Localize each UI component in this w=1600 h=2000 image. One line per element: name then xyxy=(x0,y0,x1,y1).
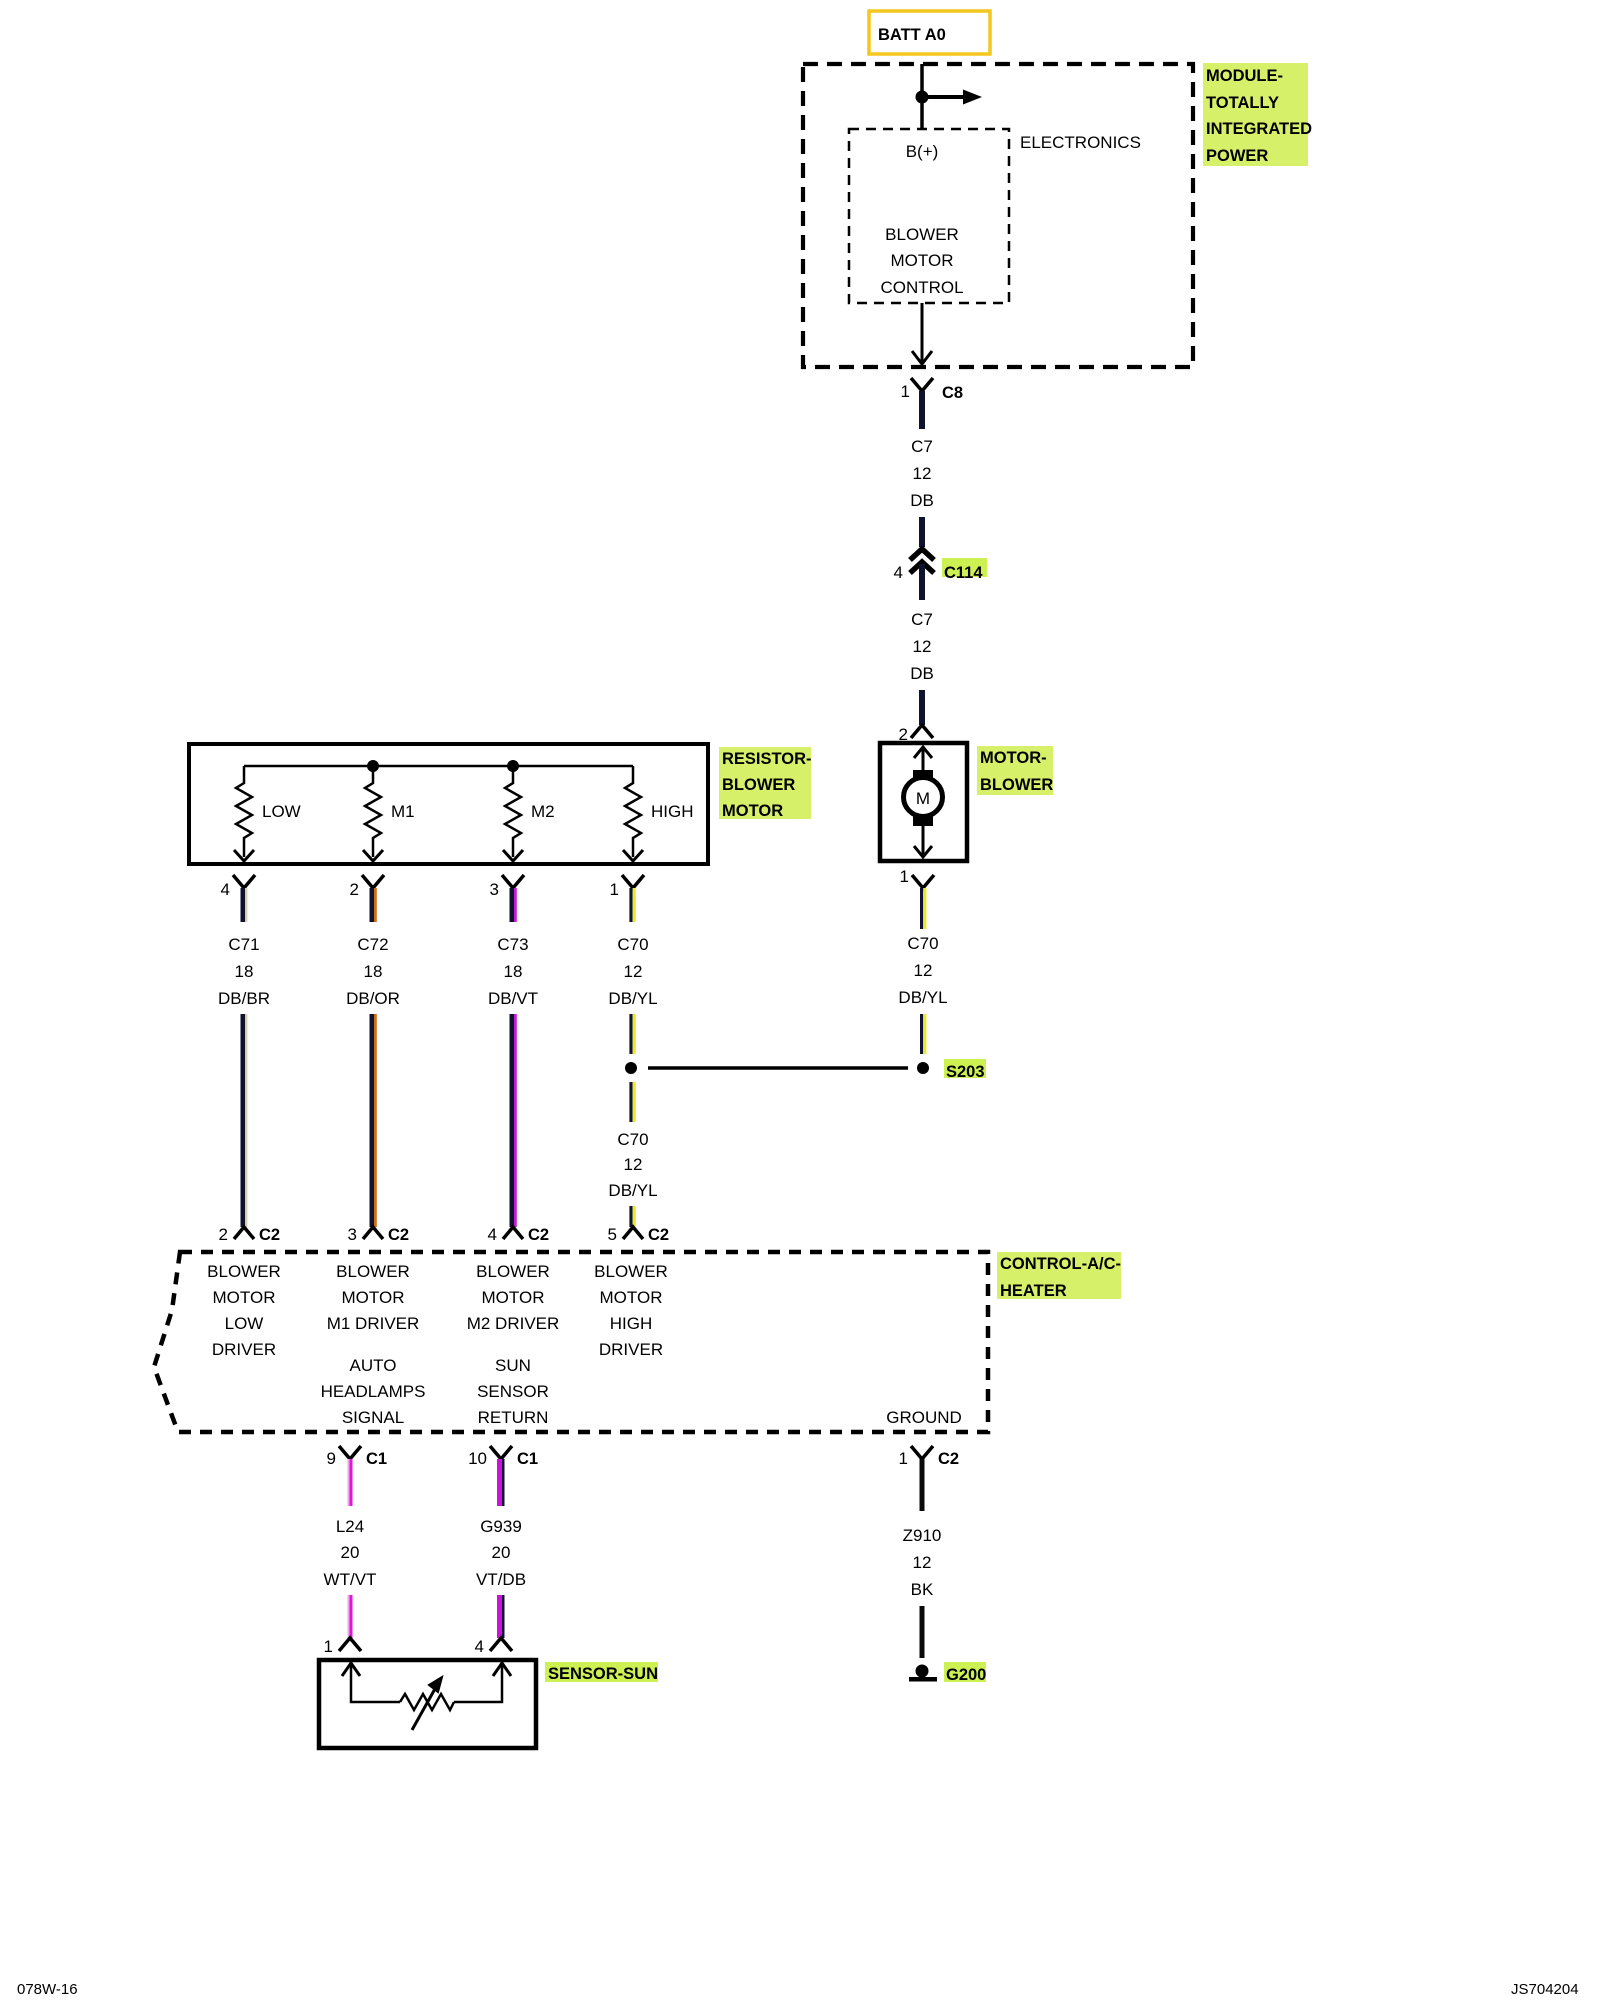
svg-text:C114: C114 xyxy=(944,564,983,582)
wire label C71 18 DB/BR xyxy=(218,935,270,1008)
wire C70 12 DB/YL stub col4 xyxy=(629,888,635,922)
wire L24 20 WT/VT stub xyxy=(348,1459,353,1506)
svg-text:MOTOR: MOTOR xyxy=(213,1288,276,1307)
wire branch arrow to right xyxy=(922,90,982,105)
svg-text:LOW: LOW xyxy=(225,1314,264,1333)
svg-text:LOW: LOW xyxy=(262,802,301,821)
connector pin 9 C1 xyxy=(327,1446,388,1468)
wire label C70 12 DB/YL lower xyxy=(608,1130,657,1200)
wire C72 18 DB/OR stub xyxy=(370,888,377,922)
svg-text:BLOWER: BLOWER xyxy=(722,776,795,794)
svg-text:3: 3 xyxy=(490,880,499,899)
fuse label BATT A0 xyxy=(869,11,990,54)
wire label L24 20 WT/VT xyxy=(324,1517,377,1589)
wire DB/YL motor to S203 xyxy=(920,888,926,929)
wire stub above C114 xyxy=(919,517,925,547)
highlight label S203 xyxy=(944,1059,986,1081)
node junction dot on feed wire xyxy=(916,91,929,104)
svg-text:C1: C1 xyxy=(517,1450,538,1468)
svg-text:HIGH: HIGH xyxy=(610,1314,653,1333)
svg-text:18: 18 xyxy=(235,962,254,981)
pin label BLOWER MOTOR M1 DRIVER xyxy=(327,1262,420,1333)
svg-text:C70: C70 xyxy=(617,1130,648,1149)
svg-text:MOTOR-: MOTOR- xyxy=(980,749,1047,767)
svg-text:M: M xyxy=(916,789,930,808)
motor symbol M with brushes and arrows xyxy=(904,747,943,857)
svg-text:C2: C2 xyxy=(528,1226,549,1244)
connector C8 pin 1 xyxy=(901,378,964,402)
svg-text:BK: BK xyxy=(911,1580,934,1599)
svg-text:1: 1 xyxy=(899,1449,908,1468)
svg-text:WT/VT: WT/VT xyxy=(324,1570,377,1589)
wire L24 lower stub xyxy=(348,1595,353,1638)
svg-text:1: 1 xyxy=(610,880,619,899)
wire col4 stub to C2 xyxy=(629,1206,635,1227)
connector pin 4 sun sensor xyxy=(475,1637,512,1656)
svg-text:12: 12 xyxy=(913,464,932,483)
svg-text:12: 12 xyxy=(624,1155,643,1174)
svg-text:5: 5 xyxy=(608,1225,617,1244)
svg-text:9: 9 xyxy=(327,1449,336,1468)
wire label C7 12 DB xyxy=(910,437,934,510)
svg-text:C1: C1 xyxy=(366,1450,387,1468)
svg-text:CONTROL-A/C-: CONTROL-A/C- xyxy=(1000,1255,1121,1273)
wire label C72 18 DB/OR xyxy=(346,935,400,1008)
wire G939 lower stub xyxy=(497,1595,505,1638)
svg-text:DB/OR: DB/OR xyxy=(346,989,400,1008)
resistor M2 xyxy=(503,766,555,861)
svg-text:Z910: Z910 xyxy=(903,1526,942,1545)
connector pin 1 below motor xyxy=(900,867,934,888)
svg-text:MOTOR: MOTOR xyxy=(722,802,783,820)
wire stub into S203 xyxy=(920,1014,926,1054)
svg-text:AUTO: AUTO xyxy=(350,1356,397,1375)
resistor LOW xyxy=(234,766,301,861)
svg-text:SIGNAL: SIGNAL xyxy=(342,1408,404,1427)
svg-text:S203: S203 xyxy=(946,1063,985,1081)
highlight label G200 xyxy=(944,1662,986,1684)
svg-text:BLOWER: BLOWER xyxy=(207,1262,281,1281)
wire label Z910 12 BK xyxy=(903,1526,942,1599)
node junction col4 splice xyxy=(625,1062,637,1074)
wire Z910 lower stub xyxy=(920,1606,925,1658)
svg-text:JS704204: JS704204 xyxy=(1511,1981,1579,1998)
connector pin 1 below resistor col4 xyxy=(610,875,644,899)
module U1 TIPM outer dashed box xyxy=(803,64,1193,367)
svg-text:MOTOR: MOTOR xyxy=(891,251,954,270)
svg-text:BLOWER: BLOWER xyxy=(980,776,1053,794)
svg-text:4: 4 xyxy=(475,1637,484,1656)
svg-text:18: 18 xyxy=(364,962,383,981)
svg-text:BLOWER: BLOWER xyxy=(476,1262,550,1281)
svg-text:C2: C2 xyxy=(388,1226,409,1244)
connector pin 2 below resistor col2 xyxy=(350,875,384,899)
svg-text:RETURN: RETURN xyxy=(478,1408,549,1427)
label BLOWER MOTOR CONTROL xyxy=(880,225,963,297)
svg-text:BLOWER: BLOWER xyxy=(594,1262,668,1281)
wire label C73 18 DB/VT xyxy=(488,935,538,1008)
pin label BLOWER MOTOR LOW DRIVER xyxy=(207,1262,281,1359)
svg-text:DB: DB xyxy=(910,664,934,683)
connector pin 1 C2 ground xyxy=(899,1446,960,1468)
svg-text:G200: G200 xyxy=(946,1666,986,1684)
svg-text:20: 20 xyxy=(492,1543,511,1562)
svg-text:4: 4 xyxy=(488,1225,497,1244)
svg-text:12: 12 xyxy=(913,637,932,656)
wire label C70 12 DB/YL col4 xyxy=(608,935,657,1008)
svg-text:1: 1 xyxy=(324,1637,333,1656)
motor M1 blower box xyxy=(880,743,967,861)
resistor block box RESISTOR-BLOWER MOTOR xyxy=(189,744,708,864)
svg-text:G939: G939 xyxy=(480,1517,522,1536)
svg-text:C71: C71 xyxy=(228,935,259,954)
wire C71 18 DB/BR stub xyxy=(241,888,248,922)
wire Z910 12 BK stub xyxy=(920,1459,925,1511)
wire col4 below splice xyxy=(629,1082,635,1122)
svg-text:MOTOR: MOTOR xyxy=(482,1288,545,1307)
sub-module dashed box BLOWER MOTOR CONTROL xyxy=(849,129,1009,303)
svg-text:HEATER: HEATER xyxy=(1000,1282,1067,1300)
connector pin 5 C2 col4 xyxy=(608,1225,670,1244)
svg-text:M1: M1 xyxy=(391,802,415,821)
svg-text:4: 4 xyxy=(894,563,903,582)
connector pin 3 C2 col2 xyxy=(348,1225,410,1244)
svg-text:RESISTOR-: RESISTOR- xyxy=(722,750,812,768)
svg-text:10: 10 xyxy=(468,1449,487,1468)
node junction on bus at M1 xyxy=(367,760,379,772)
svg-text:C8: C8 xyxy=(942,384,963,402)
svg-text:DB/YL: DB/YL xyxy=(898,988,947,1007)
wire col4 down to splice xyxy=(629,1014,635,1054)
svg-text:DRIVER: DRIVER xyxy=(599,1340,663,1359)
pin label BLOWER MOTOR HIGH DRIVER xyxy=(594,1262,668,1359)
svg-text:M2 DRIVER: M2 DRIVER xyxy=(467,1314,560,1333)
svg-text:2: 2 xyxy=(350,880,359,899)
svg-text:L24: L24 xyxy=(336,1517,364,1536)
highlight label CONTROL-A/C-HEATER xyxy=(997,1252,1121,1300)
wire C71 long run xyxy=(241,1014,248,1227)
svg-text:4: 4 xyxy=(221,880,230,899)
svg-text:C2: C2 xyxy=(259,1226,280,1244)
svg-text:12: 12 xyxy=(914,961,933,980)
svg-text:MODULE-: MODULE- xyxy=(1206,67,1283,85)
connector pin 4 below resistor col1 xyxy=(221,875,255,899)
connector pin 4 C2 col3 xyxy=(488,1225,550,1244)
resistor M1 xyxy=(363,766,415,861)
svg-text:BLOWER: BLOWER xyxy=(336,1262,410,1281)
module U2 CONTROL-A/C-HEATER dashed box xyxy=(154,1252,988,1432)
wire splice horizontal S203 to column 4 xyxy=(648,1066,908,1070)
svg-text:C73: C73 xyxy=(497,935,528,954)
svg-text:CONTROL: CONTROL xyxy=(880,278,963,297)
wire arrow from control to module edge xyxy=(912,303,932,364)
wire label G939 20 VT/DB xyxy=(476,1517,526,1589)
svg-text:C70: C70 xyxy=(907,934,938,953)
connector pin 2 motor-blower xyxy=(899,725,933,744)
svg-text:TOTALLY: TOTALLY xyxy=(1206,94,1279,112)
wire C73 18 DB/VT stub xyxy=(510,888,517,922)
svg-text:INTEGRATED: INTEGRATED xyxy=(1206,120,1312,138)
svg-text:SUN: SUN xyxy=(495,1356,531,1375)
wire C7 12 DB segment 1 xyxy=(919,391,925,429)
wire C73 long run xyxy=(510,1014,517,1227)
svg-text:MOTOR: MOTOR xyxy=(600,1288,663,1307)
highlight label SENSOR-SUN xyxy=(545,1662,658,1683)
highlight label MODULE-TOTALLY INTEGRATED POWER xyxy=(1203,63,1312,166)
pin label SUN SENSOR RETURN xyxy=(477,1356,549,1427)
wire G939 20 VT/DB stub xyxy=(497,1459,505,1506)
connector pin 2 C2 col1 xyxy=(219,1225,281,1244)
svg-text:C72: C72 xyxy=(357,935,388,954)
svg-text:20: 20 xyxy=(341,1543,360,1562)
wire stub to motor connector xyxy=(919,690,925,725)
svg-text:HEADLAMPS: HEADLAMPS xyxy=(321,1382,426,1401)
svg-text:DB/YL: DB/YL xyxy=(608,1181,657,1200)
highlight label MOTOR-BLOWER xyxy=(977,746,1053,795)
svg-text:078W-16: 078W-16 xyxy=(17,1981,78,1998)
connector pin 3 below resistor col3 xyxy=(490,875,524,899)
svg-text:GROUND: GROUND xyxy=(886,1408,962,1427)
svg-text:M2: M2 xyxy=(531,802,555,821)
bus wire inside resistor block xyxy=(244,765,633,768)
svg-text:BLOWER: BLOWER xyxy=(885,225,959,244)
svg-text:VT/DB: VT/DB xyxy=(476,1570,526,1589)
svg-text:12: 12 xyxy=(913,1553,932,1572)
svg-text:DB/BR: DB/BR xyxy=(218,989,270,1008)
pin label BLOWER MOTOR M2 DRIVER xyxy=(467,1262,560,1333)
svg-text:ELECTRONICS: ELECTRONICS xyxy=(1020,133,1141,152)
resistor HIGH xyxy=(623,766,694,861)
svg-text:DB/YL: DB/YL xyxy=(608,989,657,1008)
svg-text:BATT A0: BATT A0 xyxy=(878,26,946,44)
wire from BATT A0 into module xyxy=(920,64,924,129)
svg-text:SENSOR: SENSOR xyxy=(477,1382,549,1401)
photo resistor symbol inside sensor xyxy=(342,1662,511,1730)
pin label AUTO HEADLAMPS SIGNAL xyxy=(321,1356,426,1427)
svg-text:SENSOR-SUN: SENSOR-SUN xyxy=(548,1665,658,1683)
highlight label RESISTOR-BLOWER MOTOR xyxy=(719,747,812,820)
svg-text:POWER: POWER xyxy=(1206,147,1268,165)
svg-text:B(+): B(+) xyxy=(906,142,939,161)
wire label C70 12 DB/YL (motor) xyxy=(898,934,947,1007)
svg-text:12: 12 xyxy=(624,962,643,981)
wire C72 long run xyxy=(370,1014,377,1227)
svg-text:MOTOR: MOTOR xyxy=(342,1288,405,1307)
svg-text:18: 18 xyxy=(504,962,523,981)
svg-text:C70: C70 xyxy=(617,935,648,954)
svg-text:HIGH: HIGH xyxy=(651,802,694,821)
ground G200 symbol xyxy=(909,1665,937,1682)
svg-text:1: 1 xyxy=(900,867,909,886)
wire label C7 12 DB below C114 xyxy=(910,610,934,683)
svg-text:DRIVER: DRIVER xyxy=(212,1340,276,1359)
svg-text:3: 3 xyxy=(348,1225,357,1244)
svg-text:1: 1 xyxy=(901,382,910,401)
connector C114 pin 4 inline xyxy=(894,549,987,600)
splice S203 junction dot xyxy=(917,1062,929,1074)
svg-text:C2: C2 xyxy=(938,1450,959,1468)
node junction on bus at M2 xyxy=(507,760,519,772)
svg-text:C7: C7 xyxy=(911,610,933,629)
sensor box SENSOR-SUN xyxy=(319,1660,536,1748)
svg-text:C7: C7 xyxy=(911,437,933,456)
connector pin 1 sun sensor xyxy=(324,1637,361,1656)
connector pin 10 C1 xyxy=(468,1446,538,1468)
svg-text:DB: DB xyxy=(910,491,934,510)
svg-text:C2: C2 xyxy=(648,1226,669,1244)
svg-text:2: 2 xyxy=(219,1225,228,1244)
svg-text:DB/VT: DB/VT xyxy=(488,989,538,1008)
svg-text:M1 DRIVER: M1 DRIVER xyxy=(327,1314,420,1333)
